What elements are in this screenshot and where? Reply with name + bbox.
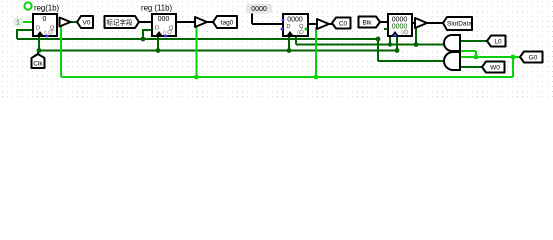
svg-text:Clk: Clk [33, 61, 43, 68]
svg-text:000: 000 [158, 16, 170, 23]
svg-text:Blk: Blk [362, 20, 372, 27]
svg-text:0000: 0000 [392, 17, 408, 24]
svg-text:C0: C0 [339, 21, 348, 28]
svg-text:L0: L0 [494, 39, 502, 46]
svg-text:0: 0 [43, 16, 47, 23]
svg-text:reg(1b): reg(1b) [34, 4, 60, 13]
svg-text:reg (11b): reg (11b) [141, 4, 172, 13]
svg-text:Q: Q [299, 24, 304, 30]
svg-text:标记字段: 标记字段 [107, 18, 134, 27]
svg-text:0000: 0000 [251, 6, 267, 13]
svg-text:W0: W0 [490, 65, 500, 72]
svg-text:D: D [36, 26, 40, 32]
svg-text:tag0: tag0 [221, 20, 234, 27]
svg-text:SlotData: SlotData [447, 21, 472, 28]
svg-text:0000: 0000 [287, 17, 303, 24]
svg-text:D: D [287, 24, 291, 30]
svg-text:1: 1 [16, 20, 20, 27]
svg-text:D: D [155, 26, 159, 32]
svg-text:0000: 0000 [392, 24, 408, 31]
svg-text:0: 0 [401, 31, 404, 37]
svg-text:V0: V0 [83, 20, 91, 27]
svg-text:G0: G0 [529, 55, 538, 62]
